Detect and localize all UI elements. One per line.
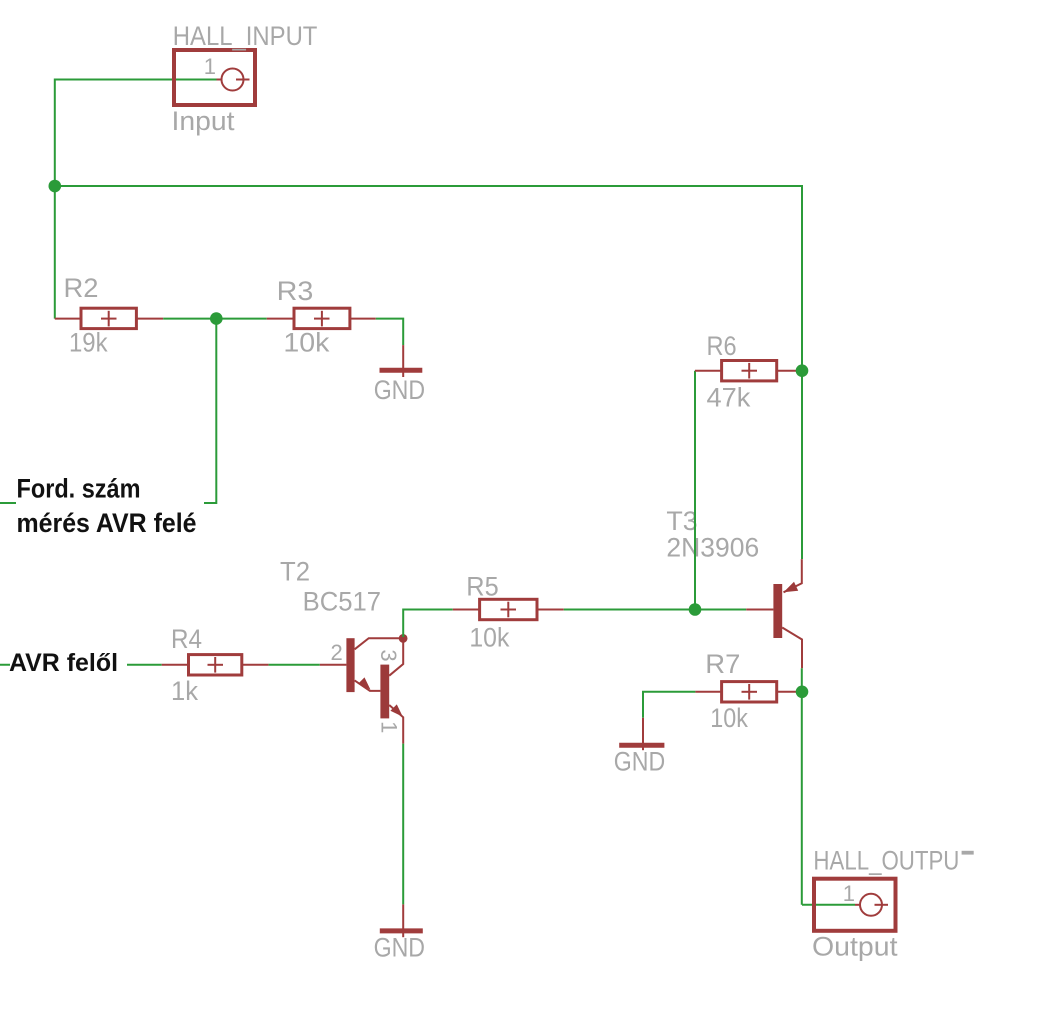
svg-text:HALL_INPUT: HALL_INPUT: [173, 21, 318, 51]
svg-text:HALL_OUTPU: HALL_OUTPU: [813, 846, 959, 876]
svg-text:R3: R3: [277, 276, 314, 306]
svg-text:Input: Input: [172, 106, 236, 136]
label R7: [705, 649, 740, 679]
wire R2 to R3: [163, 318, 267, 320]
svg-text:T2: T2: [280, 557, 310, 587]
svg-text:AVR felől: AVR felől: [9, 649, 118, 677]
svg-text:47k: 47k: [707, 383, 751, 413]
svg-text:10k: 10k: [710, 703, 748, 733]
white cover under AVR felol annotation: [10, 648, 127, 678]
label HALL_OUTPUT (clipped at right): [813, 846, 973, 876]
svg-text:GND: GND: [374, 933, 425, 963]
junction dot at R6 right / rail: [796, 364, 809, 377]
svg-text:2: 2: [331, 640, 343, 665]
label R5: [466, 572, 498, 602]
connector HALL_OUTPUT: [814, 879, 896, 931]
pin 3 label of T2: [376, 649, 401, 661]
label BC517: [303, 587, 381, 617]
svg-text:10k: 10k: [469, 622, 509, 652]
label T3: [666, 506, 697, 536]
wire R3 to GND: [376, 319, 403, 346]
svg-text:19k: 19k: [69, 328, 108, 358]
resistor R3: [267, 308, 376, 328]
svg-text:R2: R2: [64, 273, 99, 303]
wire rail into HALL_OUTPUT pin: [802, 904, 855, 906]
svg-text:mérés AVR felé: mérés AVR felé: [17, 508, 197, 538]
wire long horizontal top rail and down right side to T3 emitter: [55, 186, 802, 559]
annotation text Ford. szam meres AVR fele: [17, 474, 197, 539]
svg-text:2N3906: 2N3906: [666, 532, 759, 562]
ground GND (bottom, under T2): [380, 904, 423, 937]
label GND (bottom): [374, 933, 425, 963]
label HALL_INPUT: [173, 21, 318, 51]
junction dot at R7 right / output rail: [796, 686, 809, 699]
svg-text:1k: 1k: [171, 676, 198, 706]
pin 2 label of T2: [331, 640, 343, 665]
label Output: [812, 932, 898, 962]
svg-text:Output: Output: [812, 932, 898, 962]
wire R5 to T3 base with junction: [564, 609, 746, 611]
label Input: [172, 106, 236, 136]
wire junction up to R6 left: [694, 371, 696, 610]
ground GND (left of R7): [619, 718, 664, 750]
label 2N3906: [666, 532, 759, 562]
svg-text:GND: GND: [374, 375, 425, 405]
transistor T2 (BC517 darlington): [320, 634, 408, 744]
label R4: [171, 624, 202, 654]
svg-text:R4: R4: [171, 624, 202, 654]
svg-text:R6: R6: [707, 331, 737, 361]
junction dot between R2 and R3: [210, 312, 223, 325]
wire T3 collector down to R7 node and HALL_OUTPUT: [801, 668, 803, 905]
value 10k of R7: [710, 703, 748, 733]
wire R4 to T2 base: [269, 664, 320, 666]
svg-text:3: 3: [376, 649, 401, 661]
wire GND stub to R7 left: [643, 692, 695, 718]
junction dot at R5/T3/R6 node: [689, 603, 702, 616]
pin 1 label of T2: [377, 721, 402, 733]
label R6: [707, 331, 737, 361]
resistor R4: [162, 655, 269, 675]
value 47k: [707, 383, 751, 413]
wire T2 emitter down to GND: [402, 744, 404, 905]
value 19k: [69, 328, 108, 358]
resistor R2: [55, 308, 163, 328]
wire T2 collector up to R5 line: [403, 610, 453, 638]
svg-text:1: 1: [843, 881, 855, 906]
svg-text:Ford. szám: Ford. szám: [17, 474, 141, 504]
value 10k of R3: [283, 328, 330, 358]
svg-text:1: 1: [377, 721, 402, 733]
value 1k: [171, 676, 198, 706]
white cover under Ford. szam annotation: [16, 474, 204, 538]
svg-text:R5: R5: [466, 572, 498, 602]
svg-text:R7: R7: [705, 649, 740, 679]
pin 1 label of HALL_INPUT: [204, 54, 216, 79]
resistor R7: [695, 682, 802, 702]
svg-text:10k: 10k: [283, 328, 330, 358]
label R3: [277, 276, 314, 306]
ground GND (top, right of R3): [380, 345, 423, 377]
annotation text AVR felol: [9, 649, 118, 677]
wire from HALL_INPUT pin left and down to R2: [55, 80, 217, 319]
value 10k of R5: [469, 622, 509, 652]
label GND (middle): [614, 746, 665, 776]
wire down from junction to Ford.szam net stub: [0, 319, 216, 503]
label T2: [280, 557, 310, 587]
pin 1 label of HALL_OUTPUT: [843, 881, 855, 906]
label GND (top): [374, 375, 425, 405]
resistor R6: [695, 361, 802, 381]
transistor T3 (2N3906 PNP): [746, 559, 802, 668]
connector HALL_INPUT: [174, 50, 255, 105]
svg-text:GND: GND: [614, 746, 665, 776]
label R2: [64, 273, 99, 303]
svg-text:1: 1: [204, 54, 216, 79]
junction dot at left rail: [49, 180, 62, 193]
wire AVR felol net into R4: [0, 664, 162, 666]
svg-text:BC517: BC517: [303, 587, 381, 617]
resistor R5: [453, 599, 564, 619]
